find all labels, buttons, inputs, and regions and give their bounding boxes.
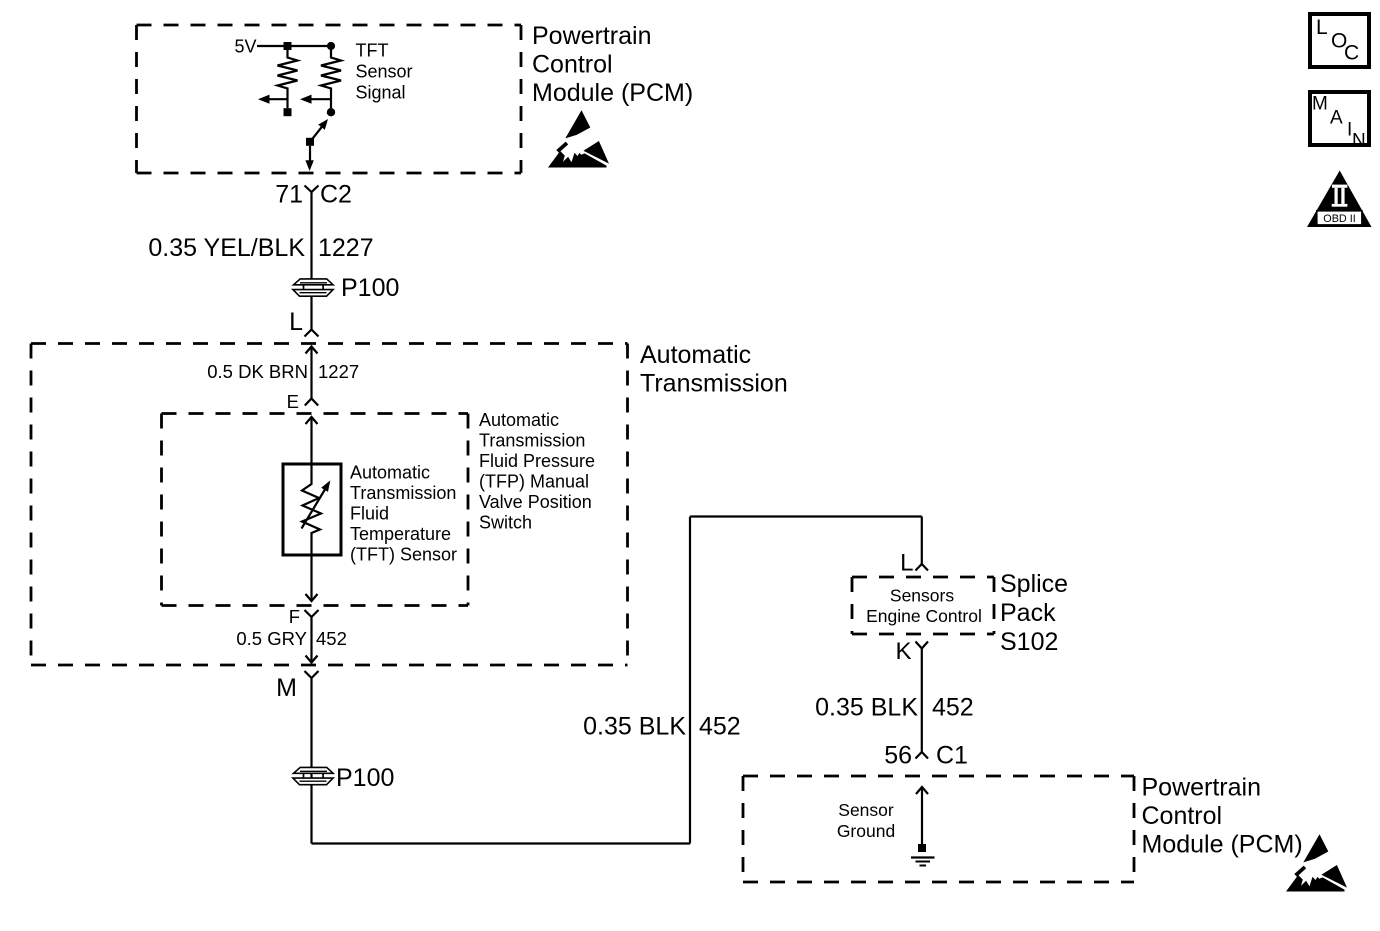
wire bottom horizontal run	[312, 842, 691, 844]
svg-text:0.35 YEL/BLK: 0.35 YEL/BLK	[148, 234, 305, 262]
svg-text:C1: C1	[936, 742, 968, 770]
svg-text:Ground: Ground	[837, 821, 895, 841]
svg-text:0.5 DK BRN: 0.5 DK BRN	[207, 361, 308, 382]
ESD symbol top	[548, 110, 609, 167]
pin F fork	[305, 610, 319, 617]
box: TFP manual valve position switch (inner)	[162, 414, 469, 606]
svg-text:5V: 5V	[234, 37, 256, 57]
svg-text:Fluid Pressure: Fluid Pressure	[479, 451, 595, 471]
terminal square pull-up 1	[284, 108, 292, 116]
svg-text:Sensor: Sensor	[838, 800, 894, 820]
svg-text:1227: 1227	[318, 234, 374, 262]
switch contact square	[306, 138, 314, 146]
svg-text:Transmission: Transmission	[640, 370, 788, 398]
svg-text:L: L	[289, 308, 303, 336]
svg-text:Temperature: Temperature	[350, 524, 451, 544]
ground symbol	[911, 858, 935, 866]
junction dot at 5V rail	[327, 42, 335, 50]
wire 0.5 GRY 452	[306, 617, 318, 663]
wire down to splice L	[921, 517, 923, 565]
svg-text:C: C	[1344, 42, 1359, 65]
svg-text:P100: P100	[341, 274, 399, 302]
label: Splice Pack S102	[1000, 570, 1068, 656]
svg-text:A: A	[1330, 108, 1343, 129]
connector P100 second	[293, 767, 333, 784]
pin 71 C2 fork	[305, 186, 319, 193]
connector P100	[293, 279, 333, 296]
svg-text:1227: 1227	[318, 361, 359, 382]
svg-text:TFT: TFT	[356, 41, 389, 61]
svg-text:0.35 BLK: 0.35 BLK	[583, 713, 686, 741]
label: TFT sensor description	[350, 463, 457, 565]
box: Powertrain Control Module (PCM) top	[137, 25, 522, 173]
svg-text:L: L	[900, 550, 913, 577]
svg-text:(TFT) Sensor: (TFT) Sensor	[350, 545, 457, 565]
arrow inside inner box (up)	[306, 417, 318, 464]
svg-text:Module (PCM): Module (PCM)	[1142, 831, 1303, 859]
svg-text:(TFP) Manual: (TFP) Manual	[479, 472, 589, 492]
wire 5V feed	[257, 45, 331, 47]
svg-text:Module (PCM): Module (PCM)	[532, 79, 693, 107]
wire right vertical run	[689, 517, 691, 844]
pin K fork	[916, 642, 929, 649]
svg-text:Transmission: Transmission	[479, 431, 585, 451]
junction square at 5V rail	[284, 42, 292, 50]
ground junction square	[918, 844, 926, 852]
label: Automatic Transmission	[640, 341, 788, 398]
label: Powertrain Control Module (PCM) bottom	[1142, 774, 1303, 859]
switch wiper arm arrow	[310, 119, 328, 142]
label: TFP switch description	[479, 410, 595, 533]
svg-text:Sensors: Sensors	[890, 586, 954, 606]
svg-text:Valve Position: Valve Position	[479, 492, 592, 512]
svg-text:0.35 BLK: 0.35 BLK	[815, 694, 918, 722]
label: Sensors Engine Control	[866, 586, 982, 627]
svg-text:0.5 GRY: 0.5 GRY	[236, 628, 307, 649]
svg-text:Engine Control: Engine Control	[866, 606, 982, 626]
box: splice pack S102	[852, 577, 994, 634]
svg-text:Transmission: Transmission	[350, 483, 456, 503]
svg-text:Powertrain: Powertrain	[1142, 774, 1262, 802]
svg-text:P100: P100	[336, 764, 394, 792]
svg-text:Fluid: Fluid	[350, 504, 389, 524]
internal signal arrow right	[300, 95, 331, 109]
svg-text:Splice: Splice	[1000, 570, 1068, 598]
box: Powertrain Control Module (PCM) bottom	[743, 776, 1134, 882]
TFT thermistor arrow	[302, 480, 331, 528]
pin 56 C1 fork	[916, 752, 929, 759]
svg-text:M: M	[276, 674, 297, 702]
svg-text:Control: Control	[532, 51, 613, 79]
svg-text:M: M	[1312, 94, 1328, 115]
svg-text:Switch: Switch	[479, 513, 532, 533]
svg-text:452: 452	[932, 694, 974, 722]
resistor pull-up 2	[321, 50, 341, 99]
OBD II symbol	[1307, 171, 1372, 228]
wire top horizontal run to splice	[690, 515, 922, 517]
wire M down to corner	[310, 678, 312, 844]
svg-text:Automatic: Automatic	[350, 463, 430, 483]
internal signal arrow left	[258, 95, 288, 109]
sensor ground arrow up	[916, 787, 928, 848]
label: Sensor Ground	[837, 800, 895, 841]
svg-text:452: 452	[316, 628, 347, 649]
svg-text:Automatic: Automatic	[479, 410, 559, 430]
svg-text:N: N	[1352, 131, 1366, 152]
svg-text:S102: S102	[1000, 628, 1058, 656]
LOC symbol	[1310, 14, 1369, 67]
pin L fork splice	[916, 564, 929, 571]
svg-text:E: E	[287, 391, 299, 412]
svg-text:F: F	[289, 606, 300, 627]
pin E fork	[305, 399, 318, 406]
pin L fork	[305, 330, 319, 337]
svg-text:K: K	[895, 638, 911, 665]
svg-text:56: 56	[884, 742, 912, 770]
svg-text:71: 71	[275, 181, 303, 209]
svg-text:L: L	[1316, 16, 1328, 39]
wire 0.35 BLK 452 right	[921, 649, 923, 753]
resistor pull-up 1	[278, 50, 298, 99]
svg-text:Control: Control	[1142, 802, 1223, 830]
box: Automatic Transmission	[31, 344, 628, 666]
pin M fork	[305, 671, 319, 678]
switch output arrow down	[305, 146, 313, 171]
svg-text:Powertrain: Powertrain	[532, 22, 652, 50]
svg-text:Automatic: Automatic	[640, 341, 751, 369]
label TFT Sensor Signal	[356, 41, 413, 103]
wire TFT to F with arrow down	[306, 555, 318, 601]
arrow into transmission (up)	[306, 347, 318, 399]
wire 0.35 YEL/BLK 1227 vertical	[310, 192, 312, 279]
svg-text:C2: C2	[320, 181, 352, 209]
svg-text:Sensor: Sensor	[356, 62, 413, 82]
wire to L	[310, 296, 312, 330]
svg-text:Signal: Signal	[356, 83, 406, 103]
label: Powertrain Control Module (PCM) top	[532, 22, 693, 107]
svg-text:Pack: Pack	[1000, 599, 1056, 627]
TFT sensor box	[283, 464, 341, 555]
svg-text:OBD II: OBD II	[1323, 213, 1355, 225]
MAIN symbol	[1310, 92, 1369, 152]
terminal dot pull-up 2	[327, 108, 335, 116]
ESD symbol bottom	[1286, 834, 1347, 891]
svg-text:452: 452	[699, 713, 741, 741]
TFT thermistor zigzag	[302, 464, 321, 555]
